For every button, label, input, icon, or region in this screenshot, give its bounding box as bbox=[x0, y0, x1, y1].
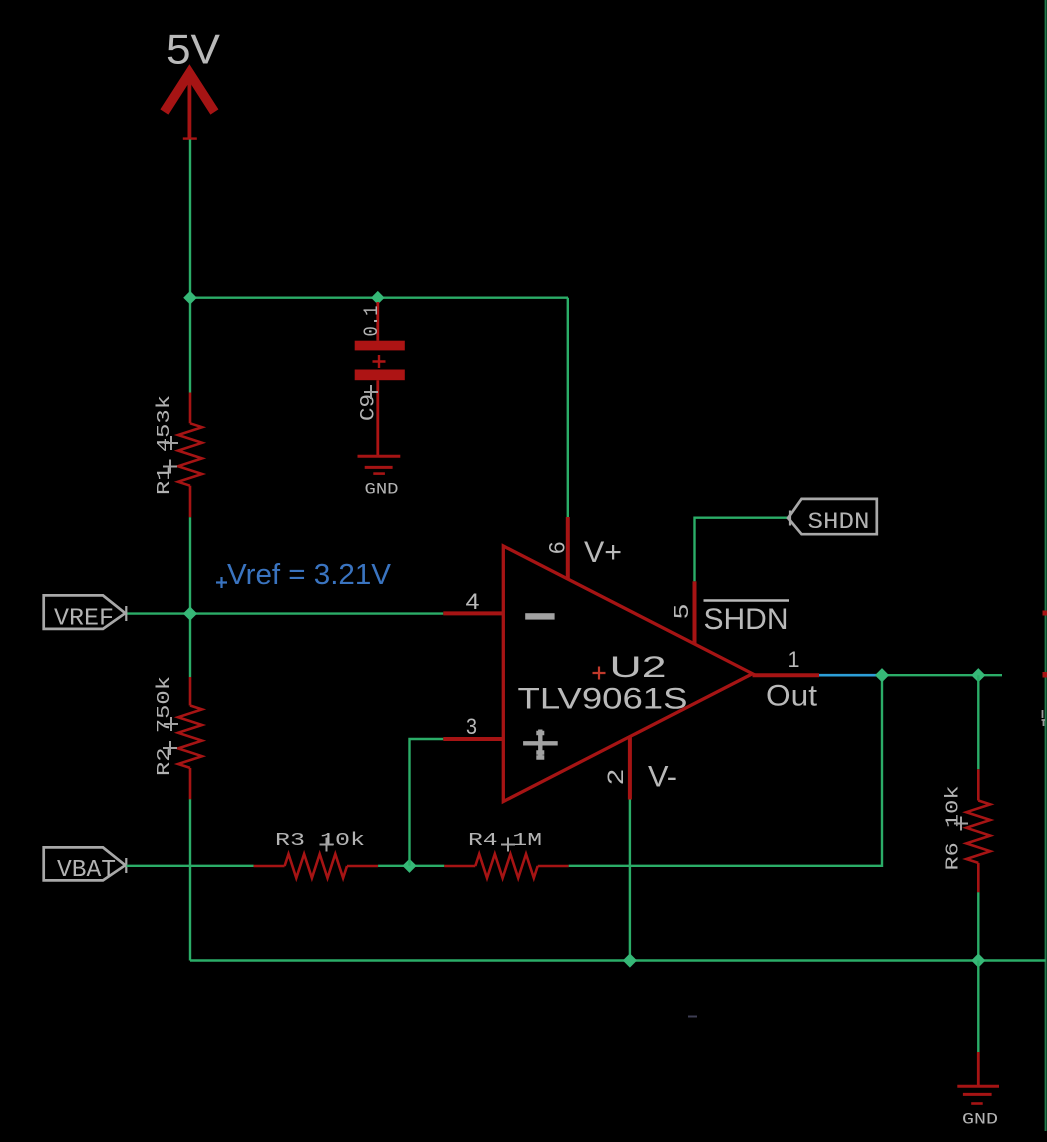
label R1 453k bbox=[154, 395, 178, 495]
node A junction bbox=[183, 291, 197, 305]
clipped text fragment right edge bbox=[1042, 710, 1046, 726]
resistor R2 bbox=[178, 677, 202, 799]
svg-text:6: 6 bbox=[545, 542, 570, 555]
label R4 1M bbox=[468, 830, 542, 852]
wire R4 to output riser bbox=[569, 675, 882, 866]
resistor R4 bbox=[444, 854, 568, 878]
svg-text:Vref = 3.21V: Vref = 3.21V bbox=[227, 559, 392, 591]
net flag SHDN bbox=[788, 499, 877, 535]
svg-text:5V: 5V bbox=[166, 26, 220, 73]
svg-text:3: 3 bbox=[466, 714, 477, 739]
wire R2 to bottom rail bbox=[189, 799, 191, 960]
svg-text:1: 1 bbox=[788, 647, 800, 672]
node B junction (cap top) bbox=[371, 291, 385, 305]
wire R1 to node VREF bbox=[189, 517, 191, 677]
svg-text:2: 2 bbox=[603, 769, 628, 785]
node G junction (bottom rail / R6) bbox=[971, 953, 985, 967]
wire pin2 to bottom rail bbox=[629, 800, 631, 961]
clipped wire stub right edge upper bbox=[1043, 611, 1047, 616]
node F junction (R6 top) bbox=[971, 668, 985, 682]
node C junction bbox=[402, 859, 416, 873]
wire node A to R1 bbox=[189, 298, 191, 393]
wire bottom rail bbox=[190, 959, 1046, 961]
wire R6 to bottom rail bbox=[977, 892, 979, 960]
label R2 750k bbox=[154, 676, 178, 776]
wire output green segment bbox=[879, 674, 1002, 676]
wire 5V to node A bbox=[189, 140, 191, 298]
pin 5 bbox=[693, 581, 697, 643]
pin 2 bbox=[628, 736, 632, 799]
label Vref = 3.21V bbox=[216, 559, 392, 591]
svg-text:GND: GND bbox=[365, 481, 399, 499]
supply symbol 5V bbox=[164, 73, 214, 139]
svg-text:4: 4 bbox=[466, 589, 480, 614]
svg-text:R4 1M: R4 1M bbox=[468, 830, 542, 851]
wire VBAT to R3 bbox=[127, 865, 254, 867]
node E junction (out riser) bbox=[875, 668, 889, 682]
svg-text:VBAT: VBAT bbox=[57, 857, 116, 884]
wire R3 to node C bbox=[378, 865, 444, 867]
pin 4 bbox=[443, 611, 503, 615]
label SHDN pin name with overline bbox=[704, 601, 790, 637]
svg-text:U2: U2 bbox=[610, 651, 667, 684]
resistor R6 bbox=[966, 769, 990, 892]
ground (bottom right) bbox=[957, 1052, 999, 1104]
wire pin6 vertical drop bbox=[567, 298, 569, 517]
svg-text:SHDN: SHDN bbox=[704, 603, 789, 636]
resistor R3 bbox=[254, 854, 379, 878]
svg-text:SHDN: SHDN bbox=[808, 509, 870, 535]
svg-text:GND: GND bbox=[962, 1111, 998, 1129]
stray mark faint dash bbox=[688, 1016, 697, 1018]
svg-text:C9: C9 bbox=[358, 394, 381, 421]
label R3 10k bbox=[275, 830, 365, 852]
wire node C to pin3 bbox=[410, 739, 444, 866]
pin 3 bbox=[443, 737, 503, 741]
op-amp minus input mark bbox=[525, 613, 554, 619]
node D junction (bottom rail / pin2) bbox=[623, 953, 637, 967]
svg-text:Out: Out bbox=[766, 680, 818, 713]
svg-text:VREF: VREF bbox=[54, 606, 114, 633]
wire node F to R6 bbox=[977, 675, 979, 769]
wire top horizontal node A to pin6 drop bbox=[190, 297, 568, 299]
wire pin5 to SHDN flag bbox=[695, 518, 789, 582]
U2 origin cross bbox=[593, 667, 606, 680]
pin 6 bbox=[566, 517, 570, 580]
svg-text:V+: V+ bbox=[584, 536, 622, 569]
label R6 10k bbox=[943, 786, 969, 871]
svg-text:0.1: 0.1 bbox=[361, 306, 384, 337]
node VREF junction bbox=[183, 607, 197, 621]
wire output blue segment bbox=[819, 674, 879, 677]
clipped wire stub right edge out bbox=[1043, 672, 1047, 678]
resistor R1 bbox=[178, 393, 202, 518]
svg-text:5: 5 bbox=[671, 604, 693, 619]
wire node G to ground bbox=[977, 961, 979, 1053]
svg-text:V-: V- bbox=[648, 761, 677, 794]
capacitor C9 bbox=[355, 302, 405, 456]
svg-text:TLV9061S: TLV9061S bbox=[518, 683, 688, 716]
frame border right edge bbox=[1045, 0, 1047, 1131]
net flag VBAT bbox=[44, 847, 127, 884]
op-amp U2 triangle bbox=[503, 546, 752, 802]
svg-text:R3 10k: R3 10k bbox=[275, 830, 365, 851]
wire VREF flag to pin4 bbox=[127, 612, 444, 614]
op-amp plus input mark bbox=[523, 730, 558, 760]
pin 1 bbox=[753, 673, 820, 677]
ground (C9) bbox=[358, 456, 401, 473]
net flag VREF bbox=[44, 595, 127, 632]
